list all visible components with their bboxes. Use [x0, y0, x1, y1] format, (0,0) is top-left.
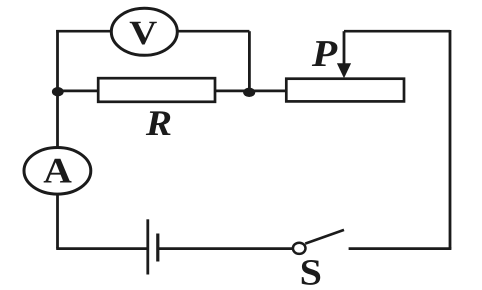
voltmeter V letter: [129, 15, 158, 52]
wire top-right horizontal (wiper to right rail): [344, 30, 450, 33]
svg-text:P: P: [311, 33, 338, 75]
wire bottom rail right segment (switch to right rail): [349, 247, 452, 250]
switch S lever: [305, 230, 344, 244]
rheostat P label: [311, 33, 338, 75]
wire right vertical rail: [449, 30, 452, 249]
svg-text:S: S: [300, 253, 322, 290]
wire top-left horizontal (to voltmeter branch): [56, 30, 249, 33]
ammeter A (meter circle): [24, 148, 91, 195]
ammeter A letter: [43, 150, 72, 190]
voltmeter V (meter circle): [111, 8, 177, 55]
wire bottom rail left segment: [56, 247, 148, 250]
node A (junction dot): [52, 87, 64, 96]
battery long plate (positive): [146, 219, 149, 274]
wire resistor R to node B: [214, 90, 250, 93]
svg-text:R: R: [145, 103, 172, 143]
wire node A to resistor R: [58, 90, 100, 93]
resistor R value label: [145, 103, 172, 143]
rheostat P wiper stem: [343, 31, 346, 67]
resistor R (box): [98, 78, 215, 102]
switch S label: [300, 253, 322, 290]
wire node B to rheostat P: [249, 90, 288, 93]
node B (junction dot): [243, 88, 255, 97]
wire left vertical rail: [56, 30, 59, 249]
switch S pivot circle: [293, 243, 306, 254]
wire vertical from voltmeter right to node B: [248, 31, 251, 92]
rheostat P (box): [286, 79, 404, 102]
battery short plate (negative): [156, 234, 159, 262]
svg-text:V: V: [129, 15, 158, 52]
rheostat P wiper arrowhead: [337, 63, 351, 78]
svg-text:A: A: [43, 150, 72, 190]
wire bottom rail middle segment (battery to switch): [158, 247, 293, 250]
